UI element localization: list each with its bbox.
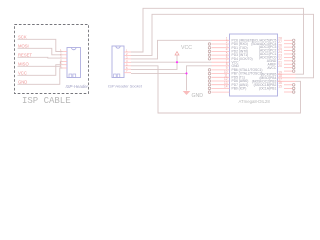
IC pin x right blank [284,91,295,94]
pin 4 socket [124,61,131,63]
supply VCC symbol [175,45,192,62]
svg-text:ISP CABLE: ISP CABLE [22,96,71,106]
IC pin 7 left VCC [212,58,240,64]
wire GND drop to ground symbol [186,73,188,90]
svg-text:SCK: SCK [18,34,27,39]
IC pin 17 right (MOSI/OC2)PB3 [252,78,296,84]
IC pin 28 right (SCL/ADC5)PC5 [252,37,295,43]
wire MOSI [18,48,63,55]
svg-text:MOSI: MOSI [18,43,29,48]
wire GND riser to IC pin8 [187,66,212,74]
wire net VCC socket p4 to IC pin7 [131,61,212,63]
pin 3 ISP-Header [63,57,68,59]
IC pin 16 right (SS/OC1B)PB2 [254,81,295,87]
connector ISP-Header (cable side) [67,48,81,78]
wire net RESET socket p3 to IC pin1 [131,40,212,59]
IC pin 11 left PD5 (T1) [208,74,245,80]
pin 2 socket [124,54,131,56]
svg-text:MISO: MISO [18,61,29,66]
IC pin 23 right (ADC0)PC0 [259,54,295,60]
ground GND symbol [183,91,204,99]
connector ISP Header Socket [112,46,124,78]
svg-text:(OC1A)PB1: (OC1A)PB1 [259,87,277,91]
pin 6 ISP-Header [63,67,68,69]
IC pin 21 right AREF [268,60,295,66]
IC pin 10 left PB7 (XTAL2/TOSC2) [208,70,262,76]
IC pin 14 left PB0 (ICP) [208,85,246,91]
svg-text:20: 20 [278,64,282,68]
IC pin 19 right (SCK)PB5 [261,70,295,76]
svg-text:ATmega8-DIL28: ATmega8-DIL28 [239,99,271,104]
IC pin x right blank [284,70,295,73]
pin 6 socket [124,68,131,70]
svg-text:VCC: VCC [181,45,192,51]
IC pin 2 left PD0 (RXD) [208,40,248,46]
svg-text:RESET: RESET [18,52,32,57]
IC pin 5 left PD3 (INT1) [208,51,248,57]
IC pin 25 right (ADC2)PC2 [259,47,295,53]
wire RESET [18,56,63,59]
pin 7 socket [124,72,131,74]
svg-text:VCC: VCC [18,70,27,75]
frame ISP CABLE dashed box [15,25,89,94]
IC U1 ATmega8 body [230,34,278,96]
IC pin 13 left PD7 (AIN1) [208,81,248,87]
svg-text:ISP Header Socket: ISP Header Socket [108,83,143,88]
IC pin 6 left PD4 (XCK/T0) [208,55,252,61]
wire SCK [18,39,63,51]
wire MISO [18,61,63,66]
pin 4 ISP-Header [63,60,68,62]
IC pin 20 right AVCC [267,64,295,70]
IC pin 3 left PD1 (TXD) [208,44,247,50]
IC pin 18 right (MISO)PB4 [259,74,295,80]
wire GND [18,68,63,84]
svg-text:PB0 (ICP): PB0 (ICP) [232,87,247,91]
pin 5 ISP-Header [63,64,68,66]
IC pin 26 right (ADC3)PC3 [259,43,295,49]
IC pin 24 right (ADC1)PC1 [259,50,295,56]
junction VCC node [176,61,178,63]
svg-text:14: 14 [224,85,228,89]
wire net VCC socket p6 riser [131,62,177,69]
IC pin 9 left PB6 (XTAL1/TOSC1) [208,66,262,72]
svg-text:ISP-Header: ISP-Header [66,84,89,89]
pin 5 socket [124,65,131,67]
svg-text:GND: GND [18,79,27,84]
svg-text:AVCC: AVCC [267,66,277,70]
wire net SCK socket p1 to IC pin19 [131,8,304,74]
IC pin 15 right (OC1A)PB1 [259,85,295,91]
IC pin 12 left PD6 (AIN0) [208,77,248,83]
IC pin 22 right AGND [267,57,295,63]
IC pin 8 left GND [212,62,240,68]
svg-text:15: 15 [278,85,282,89]
IC pin x left blank [208,91,229,94]
svg-text:GND: GND [192,93,204,99]
wire net MISO socket p5 to IC pin18 [131,66,301,113]
wire VCC [18,65,63,76]
pin 1 ISP-Header [63,51,68,53]
junction GND node [185,72,187,74]
IC pin 27 right (SDA/ADC4)PC4 [251,40,295,46]
IC pin 1 left PC6 (/RESET) [212,37,253,43]
pin 1 socket [124,51,131,53]
IC pin 4 left PD2 (INT0) [208,48,248,54]
pin 2 ISP-Header [63,54,68,56]
pin 3 socket [124,58,131,60]
wire net GND socket p7 [131,72,187,74]
wire net MOSI socket p2 to IC pin17 [131,14,314,78]
